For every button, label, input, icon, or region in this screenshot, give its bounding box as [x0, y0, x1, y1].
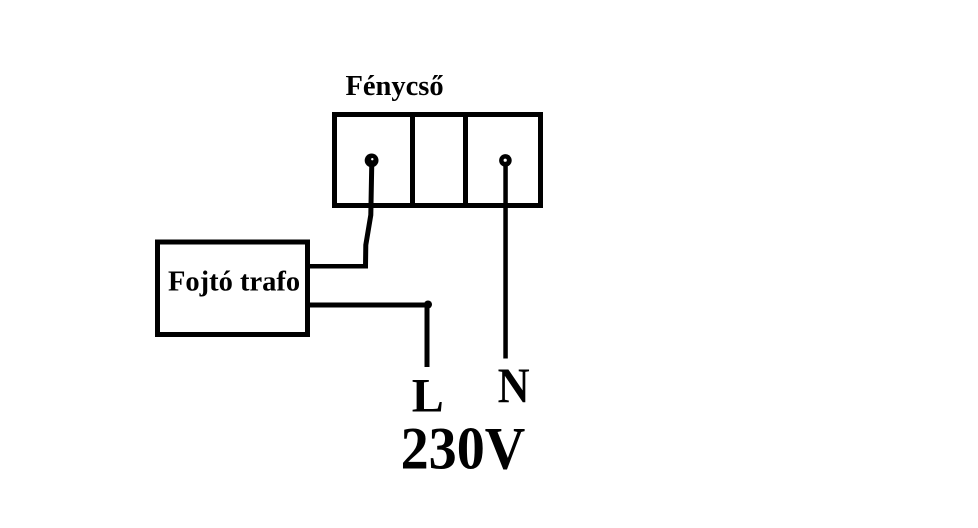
terminal dot left highlight [371, 158, 373, 160]
svg-text:N: N [498, 357, 530, 413]
svg-text:Fénycső: Fénycső [346, 71, 444, 102]
wire ballast upper horizontal [306, 264, 368, 269]
ballast box Fojtó trafo [158, 242, 308, 335]
wire vertical to N [503, 162, 508, 359]
svg-text:Fojtó trafo: Fojtó trafo [168, 266, 300, 297]
tube divider right [463, 112, 468, 208]
wire left-dot to ballast (slanted vertical) [366, 162, 372, 266]
wire vertical to L [425, 303, 430, 367]
tube divider left [410, 112, 415, 208]
terminal dot right highlight [504, 159, 507, 162]
terminal dot right [499, 154, 512, 167]
terminal dot left [365, 154, 379, 168]
svg-text:230V: 230V [401, 416, 526, 482]
junction blob at L corner [424, 301, 432, 309]
fluorescent tube body [335, 115, 541, 206]
wire ballast lower horizontal [306, 303, 431, 308]
